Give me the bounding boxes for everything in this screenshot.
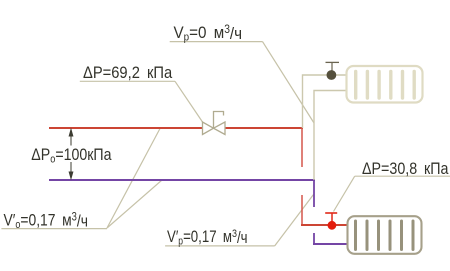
label: dPo=100kPa: [31, 146, 111, 163]
wire: supply main (red) left segment: [49, 127, 203, 129]
wire: purple riser lower part: [313, 233, 315, 244]
valve: top radiator thermostatic valve (closed, dark): [326, 62, 340, 80]
leader underline for V'o: [1, 228, 107, 230]
label: dP=30,8 kPa (right): [362, 160, 449, 178]
svg-text:ΔP=69,2 кПа: ΔP=69,2 кПа: [83, 64, 172, 82]
leader underline for dP=69,2: [80, 80, 175, 82]
leader line V'o to purple main: [107, 180, 162, 228]
wire: purple branch to bottom radiator: [313, 243, 348, 245]
leader underline for V'p: [165, 245, 275, 247]
label: V'p=0,17 m3/h (bottom middle): [167, 227, 248, 247]
valve V1: balancing valve on supply main: [203, 112, 226, 135]
wire: purple riser upper part: [313, 179, 315, 207]
wire: idle return riser from top radiator: [314, 91, 347, 181]
valve: bottom radiator thermostatic valve (open, red): [325, 213, 337, 230]
radiator bottom (active) body: [348, 216, 422, 254]
leader line V'p to purple riser: [275, 195, 314, 246]
label: dP=69,2 kPa: [83, 64, 172, 82]
radiator top (idle) body: [347, 66, 423, 103]
leader line Vp=0 to top riser: [263, 42, 315, 123]
leader line dP=30,8 to bottom valve: [334, 176, 355, 211]
label: Vp=0 m3/h (top): [174, 23, 243, 43]
radiator bottom fins: [356, 221, 414, 250]
leader underline for Vp=0: [170, 41, 263, 43]
leader line V'o to red main: [107, 129, 160, 229]
wire: supply main (red) right segment after valve: [225, 127, 303, 129]
wire: red branch to bottom radiator: [301, 224, 348, 226]
leader line dP=69,2 to valve V1: [175, 81, 203, 122]
label: V'o=0,17 m3/h (bottom left): [4, 211, 89, 232]
wire: return main (purple): [49, 179, 315, 181]
leader underline for dP=30,8: [355, 175, 450, 177]
wire: idle supply riser to top radiator: [303, 75, 347, 128]
dimension arrow between mains: [69, 130, 73, 179]
svg-text:ΔP=30,8 кПа: ΔP=30,8 кПа: [362, 160, 449, 178]
radiator top fins: [356, 72, 415, 99]
wire: supply riser red drop lower part: [301, 195, 303, 225]
wire: supply riser red drop upper part: [301, 127, 303, 167]
svg-text:ΔPo=100кПа: ΔPo=100кПа: [31, 146, 111, 166]
